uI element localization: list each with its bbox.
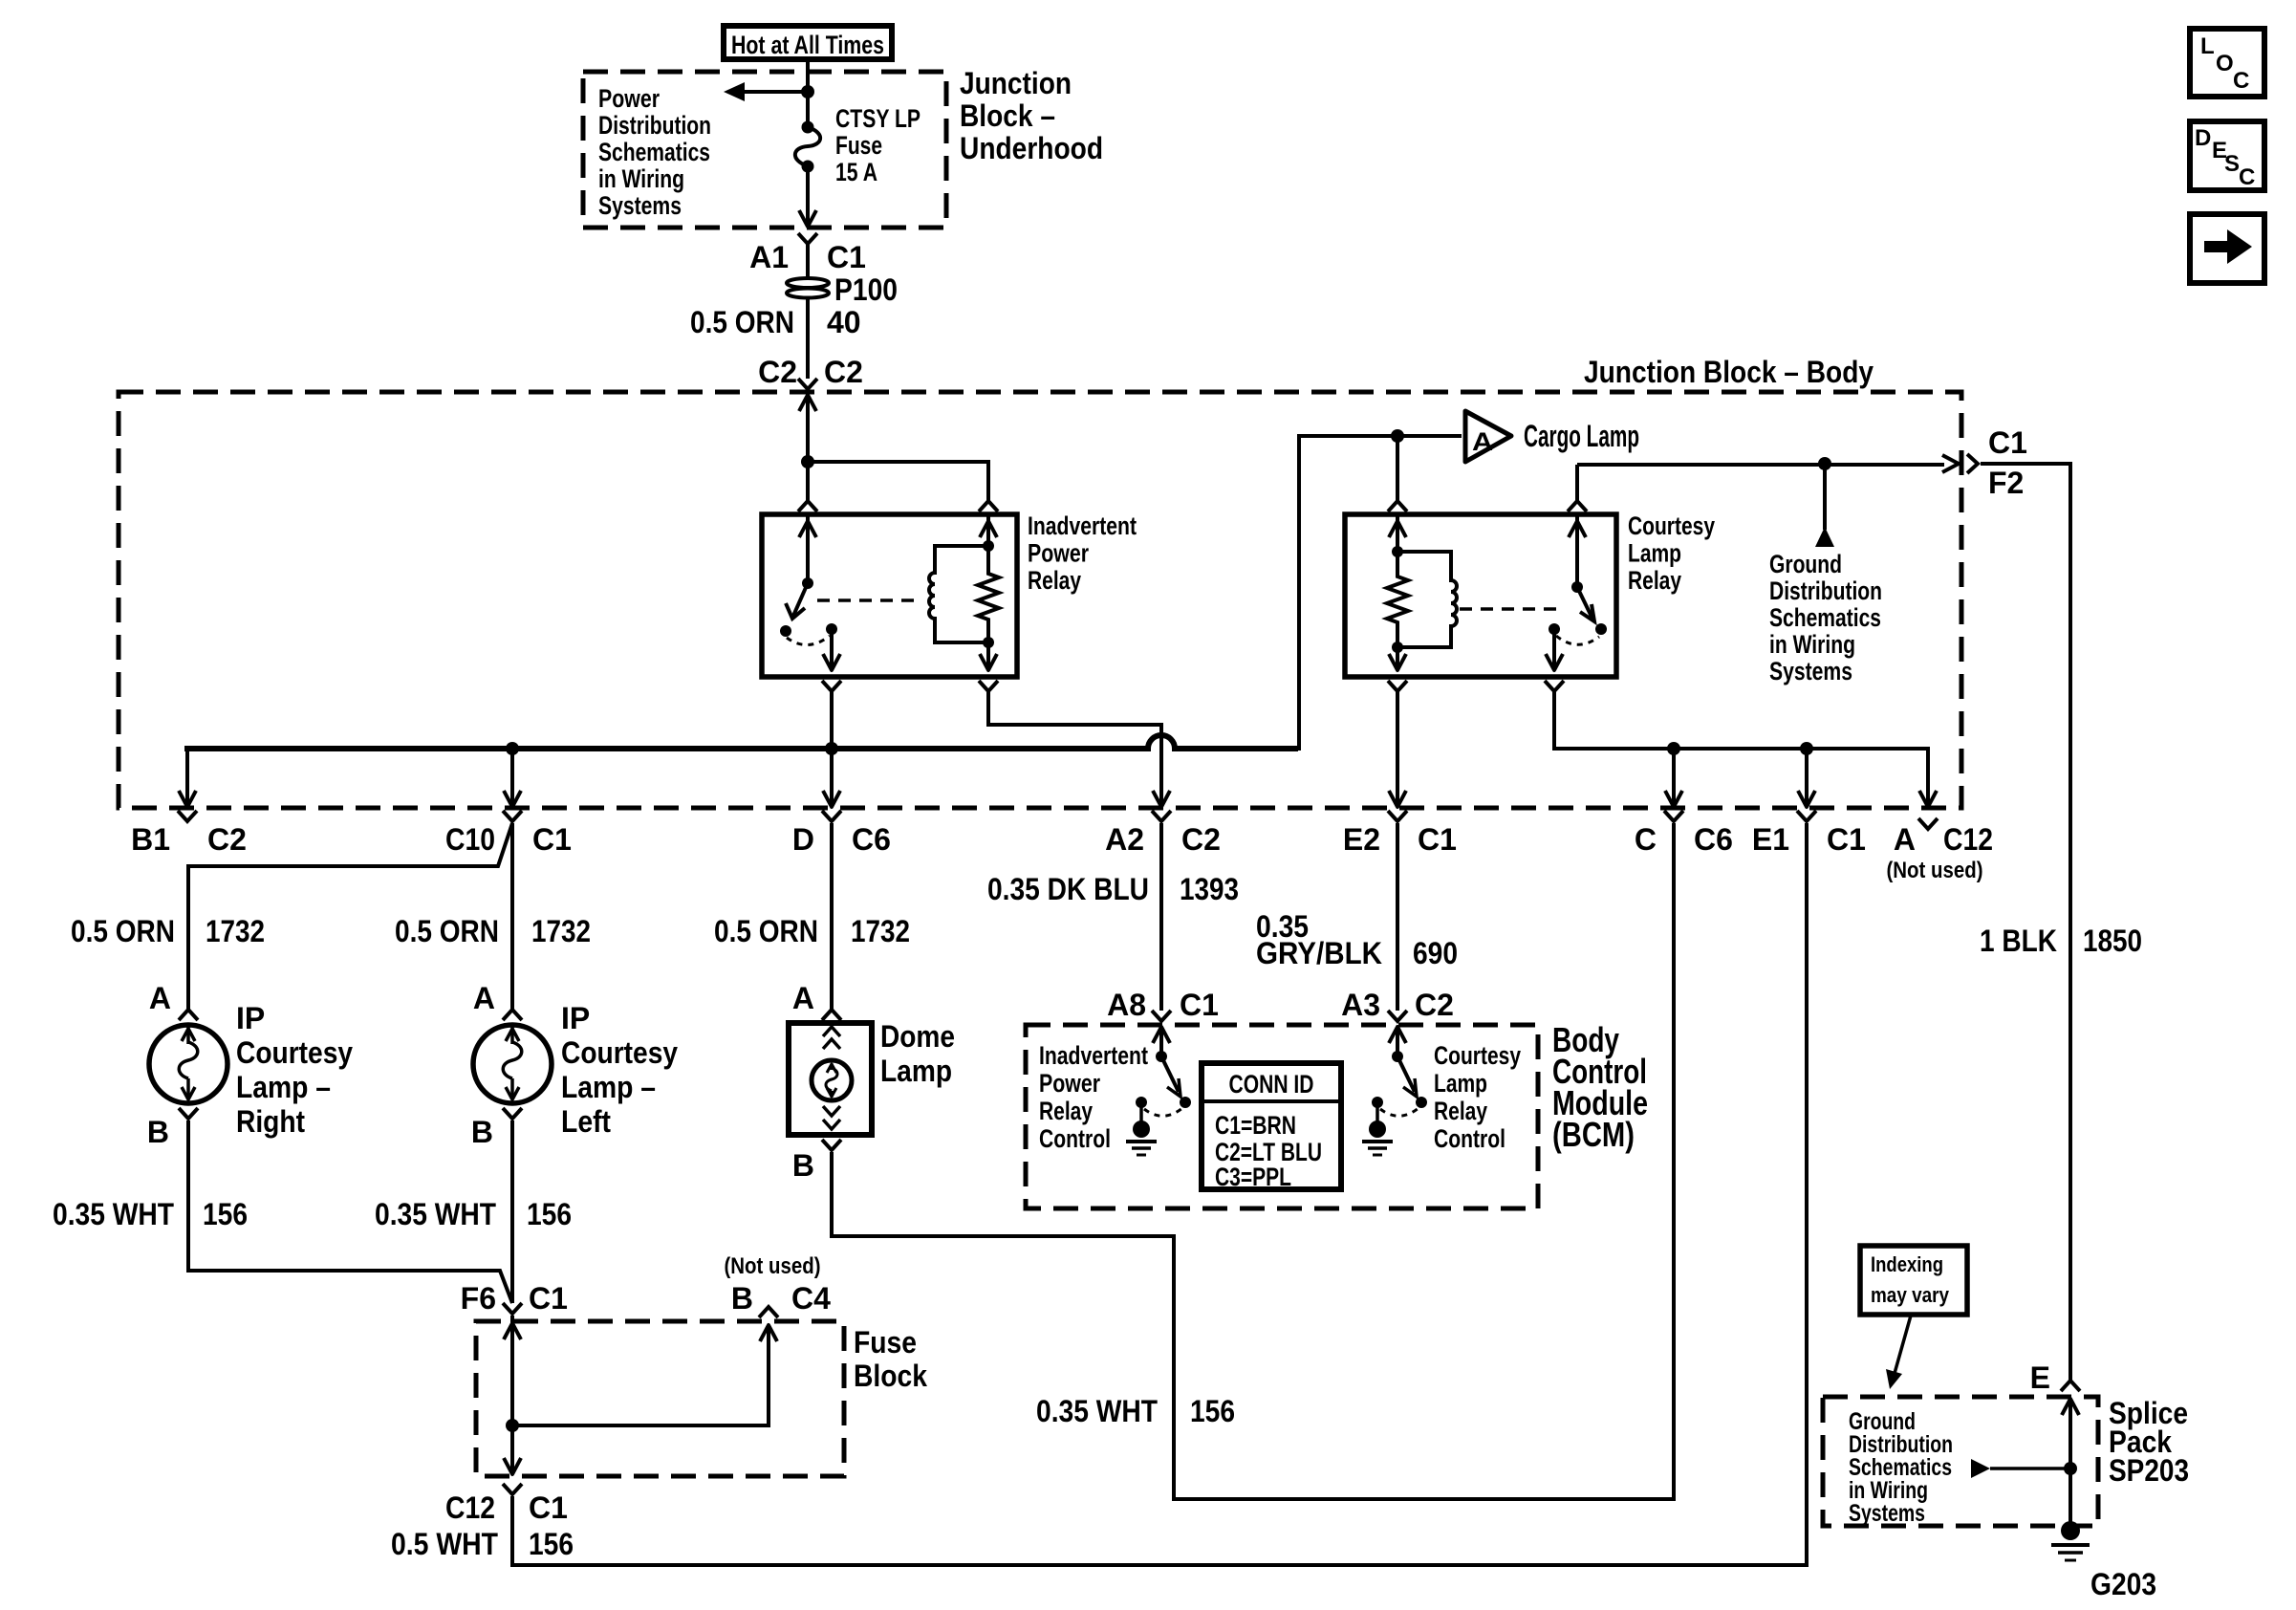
relay switch dashed arc — [787, 636, 830, 645]
svg-text:Lamp –: Lamp – — [561, 1070, 656, 1104]
courtesy switch pivot dot — [1571, 581, 1583, 593]
courtesy switch contact dots — [1595, 623, 1607, 635]
BCM courtesy switch arm — [1397, 1056, 1415, 1092]
wire courtesy output to bus — [1554, 691, 1928, 803]
svg-text:Cargo Lamp: Cargo Lamp — [1524, 419, 1639, 453]
svg-text:C: C — [1635, 822, 1657, 857]
junction dot bus at relay output — [825, 742, 838, 755]
svg-text:CONN ID: CONN ID — [1229, 1070, 1314, 1099]
wire bus to C10 connector — [510, 751, 514, 803]
wire hot feed into fuse — [806, 59, 810, 127]
svg-text:Inadvertent: Inadvertent — [1039, 1041, 1148, 1070]
svg-text:Lamp: Lamp — [1628, 539, 1681, 568]
connector chevron E1-C1 — [1797, 811, 1816, 821]
dome lamp double chevron top — [823, 1027, 840, 1036]
svg-text:Courtesy: Courtesy — [1434, 1041, 1521, 1070]
relay switch arm — [793, 583, 808, 616]
wire relay coil to A2 connector — [988, 691, 1161, 803]
svg-text:0.5 ORN: 0.5 ORN — [395, 914, 499, 948]
wire right lamp B to fuse block — [188, 1120, 512, 1303]
svg-text:F2: F2 — [1988, 466, 2024, 500]
svg-text:(BCM): (BCM) — [1552, 1115, 1635, 1154]
svg-text:C1: C1 — [1988, 425, 2027, 460]
svg-text:B: B — [731, 1281, 753, 1316]
BCM inadvertent pole dot — [1136, 1097, 1147, 1108]
svg-text:Systems: Systems — [1769, 657, 1852, 685]
connector chevron C2-C2 — [798, 379, 817, 389]
arrow into body block — [799, 395, 816, 411]
connector chevron C10-C1 — [503, 811, 522, 821]
svg-text:B1: B1 — [131, 822, 170, 857]
svg-text:Courtesy: Courtesy — [1628, 511, 1715, 540]
svg-text:Junction Block – Body: Junction Block – Body — [1584, 355, 1874, 389]
junction dot relay feed — [801, 455, 814, 468]
connector chevron A2-C2 — [1152, 811, 1171, 821]
svg-text:C1: C1 — [827, 240, 866, 274]
wire bus to B1 connector — [185, 749, 189, 803]
junction dot bus C — [1667, 742, 1680, 755]
svg-text:C2: C2 — [1181, 822, 1221, 857]
connector chevron D-C6 — [822, 811, 841, 821]
ground distribution triangle — [1815, 527, 1834, 547]
svg-text:A: A — [1472, 427, 1493, 456]
splice pack dashed box — [1823, 1397, 2098, 1526]
junction dot bus E1 — [1800, 742, 1813, 755]
svg-text:Relay: Relay — [1628, 566, 1681, 595]
svg-text:F6: F6 — [461, 1281, 496, 1316]
courtesy relay dashed link — [1460, 607, 1565, 611]
svg-text:Courtesy: Courtesy — [561, 1035, 678, 1070]
svg-text:1732: 1732 — [206, 914, 265, 948]
courtesy coil bottom dot — [1392, 642, 1403, 653]
legend box next-page arrow — [2190, 214, 2264, 283]
svg-text:Fuse: Fuse — [835, 131, 882, 160]
relay switch contact dots — [780, 625, 791, 637]
wire into body box — [806, 395, 810, 413]
svg-text:C6: C6 — [1694, 822, 1733, 857]
relay coil top dot — [983, 540, 994, 552]
svg-text:GRY/BLK: GRY/BLK — [1256, 936, 1382, 970]
label Hot at All Times box — [724, 26, 892, 59]
svg-text:Distribution: Distribution — [1769, 577, 1882, 605]
wire courtesy switch to C1-F2 — [1577, 463, 1944, 467]
wire C10 to both lamps — [188, 823, 512, 1010]
svg-text:C4: C4 — [791, 1281, 831, 1316]
svg-text:P100: P100 — [834, 272, 898, 307]
BCM courtesy control arrow — [1389, 1027, 1406, 1043]
svg-text:may vary: may vary — [1871, 1283, 1950, 1307]
svg-text:Systems: Systems — [1849, 1500, 1925, 1527]
svg-text:Lamp: Lamp — [1434, 1069, 1487, 1098]
svg-text:Lamp: Lamp — [880, 1054, 952, 1088]
svg-text:C2: C2 — [758, 355, 797, 389]
svg-text:A: A — [473, 981, 495, 1015]
fuse block junction dot — [506, 1419, 519, 1432]
wire 1 BLK 1850 — [1981, 464, 2070, 1380]
junction dot cargo line — [1391, 429, 1404, 443]
svg-text:0.5 ORN: 0.5 ORN — [690, 305, 794, 339]
BCM courtesy dashed arc — [1380, 1108, 1419, 1116]
arrow to power distribution — [738, 90, 808, 94]
fuse block output wire — [510, 1425, 514, 1474]
svg-text:1732: 1732 — [851, 914, 910, 948]
svg-text:C1: C1 — [529, 1490, 568, 1525]
indexing may vary box — [1860, 1246, 1967, 1315]
dome lamp box — [789, 1023, 872, 1135]
BCM inadvertent contact dot — [1180, 1097, 1191, 1108]
CONN ID box — [1202, 1063, 1341, 1189]
junction dot ground distribution — [1818, 457, 1831, 470]
svg-text:1850: 1850 — [2083, 924, 2142, 958]
arrow at C1-F2 edge — [1942, 455, 1959, 472]
splice pack ground G203 — [2069, 1469, 2072, 1524]
svg-text:(Not used): (Not used) — [725, 1253, 821, 1279]
chevron relay coil pin — [979, 501, 998, 511]
wire A2 to BCM A8 — [1159, 823, 1163, 1011]
svg-text:Relay: Relay — [1028, 566, 1081, 595]
lamp left filament — [510, 1027, 514, 1044]
svg-text:A3: A3 — [1341, 988, 1380, 1022]
svg-text:Dome: Dome — [880, 1019, 955, 1054]
svg-text:Block –: Block – — [960, 98, 1055, 133]
svg-text:A2: A2 — [1105, 822, 1144, 857]
svg-text:156: 156 — [203, 1197, 248, 1231]
fuse block dashed box — [476, 1321, 844, 1476]
svg-text:O: O — [2216, 51, 2234, 76]
wire bus riser to cargo lamp line — [1299, 436, 1462, 751]
svg-text:1 BLK: 1 BLK — [1980, 924, 2057, 958]
wire to ground distribution pointer — [1823, 464, 1827, 530]
BCM courtesy pivot dot — [1392, 1051, 1403, 1062]
courtesy resistor — [1387, 552, 1408, 647]
relay resistor — [978, 546, 999, 642]
IP courtesy lamp left chevron A — [503, 1010, 522, 1020]
wire connector to body block — [806, 244, 810, 379]
svg-text:Indexing: Indexing — [1871, 1252, 1943, 1276]
svg-text:C2: C2 — [824, 355, 863, 389]
lamp right filament — [186, 1027, 190, 1044]
svg-text:E2: E2 — [1343, 822, 1380, 857]
svg-text:Relay: Relay — [1039, 1097, 1093, 1125]
svg-text:CTSY LP: CTSY LP — [835, 104, 921, 133]
courtesy coil winding — [1397, 552, 1457, 647]
svg-text:Schematics: Schematics — [1769, 603, 1881, 632]
svg-text:15 A: 15 A — [835, 158, 877, 186]
svg-text:Junction: Junction — [960, 66, 1072, 100]
svg-text:Left: Left — [561, 1104, 611, 1139]
wire left lamp B to fuse block — [510, 1120, 514, 1303]
svg-text:E1: E1 — [1752, 822, 1789, 857]
chevron relay coil output — [979, 681, 998, 691]
svg-text:B: B — [792, 1148, 814, 1183]
wire junction to relay switch pin — [806, 462, 810, 501]
svg-text:C1: C1 — [1827, 822, 1866, 857]
svg-text:0.5 ORN: 0.5 ORN — [71, 914, 175, 948]
svg-text:Hot at All Times: Hot at All Times — [731, 31, 884, 59]
dome lamp double chevron bottom — [823, 1106, 840, 1116]
relay switch pin arrow — [806, 516, 810, 583]
svg-text:0.35 WHT: 0.35 WHT — [53, 1197, 174, 1231]
chevron relay switch output — [822, 681, 841, 691]
svg-text:IP: IP — [561, 1001, 590, 1035]
svg-text:A: A — [1894, 822, 1916, 857]
junction dot bus C10 — [506, 742, 519, 755]
BCM courtesy contact dot — [1416, 1097, 1427, 1108]
fuse block jumper to C4 — [512, 1325, 769, 1425]
svg-text:A1: A1 — [749, 240, 789, 274]
legend box LOC — [2190, 29, 2264, 97]
courtesy switch pin wire — [1575, 465, 1579, 501]
svg-text:C12: C12 — [445, 1490, 495, 1525]
svg-text:156: 156 — [527, 1197, 572, 1231]
svg-text:Control: Control — [1434, 1124, 1505, 1153]
svg-text:0.5 ORN: 0.5 ORN — [714, 914, 818, 948]
svg-text:C6: C6 — [852, 822, 891, 857]
svg-text:L: L — [2200, 33, 2215, 59]
svg-text:C1: C1 — [1418, 822, 1457, 857]
svg-text:in Wiring: in Wiring — [598, 164, 684, 193]
splice pack chevron E — [2061, 1381, 2080, 1391]
dome lamp filament — [831, 1063, 834, 1070]
courtesy coil pin wire — [1396, 516, 1399, 552]
wire courtesy coil to E2 connector — [1396, 691, 1399, 803]
arrow at D connector — [823, 791, 840, 807]
svg-text:C: C — [2239, 164, 2255, 190]
lamp left chevron B — [503, 1108, 522, 1119]
svg-text:A8: A8 — [1107, 988, 1146, 1022]
wire E2 to BCM A3 — [1396, 823, 1399, 1011]
junction block body dashed box — [119, 392, 1961, 808]
chevron courtesy coil output — [1388, 681, 1407, 691]
BCM courtesy ground — [1375, 1102, 1379, 1121]
svg-text:156: 156 — [529, 1527, 574, 1561]
courtesy lamp relay box — [1345, 514, 1616, 677]
svg-text:Fuse: Fuse — [854, 1325, 917, 1360]
svg-text:Schematics: Schematics — [598, 138, 710, 166]
svg-text:SP203: SP203 — [2109, 1453, 2189, 1488]
BCM courtesy pole dot — [1372, 1097, 1383, 1108]
svg-text:S: S — [2224, 151, 2240, 177]
wire D connector to dome lamp — [830, 823, 834, 1010]
courtesy switch dashed arc — [1556, 636, 1599, 644]
chevron relay switch pin — [798, 501, 817, 511]
svg-text:Inadvertent: Inadvertent — [1028, 511, 1137, 540]
svg-text:C10: C10 — [445, 822, 495, 857]
relay dashed link — [817, 598, 921, 602]
svg-text:Right: Right — [236, 1104, 305, 1139]
BCM inadvertent control arrow — [1153, 1027, 1170, 1043]
svg-text:1732: 1732 — [531, 914, 591, 948]
connector chevron A-C12 — [1918, 818, 1938, 829]
BCM chevron A8 — [1152, 1011, 1171, 1021]
splice pack junction dot — [2064, 1462, 2077, 1475]
chevron courtesy switch output — [1545, 681, 1564, 691]
fuse block feed wire — [510, 1316, 514, 1425]
svg-text:D: D — [2195, 125, 2211, 151]
relay coil output — [986, 642, 990, 668]
svg-text:Underhood: Underhood — [960, 131, 1103, 165]
svg-text:0.5 WHT: 0.5 WHT — [391, 1527, 498, 1561]
BCM chevron A3 — [1388, 1011, 1407, 1021]
splice pack pointer to note — [1971, 1459, 1990, 1478]
splice pack feed arrow — [2062, 1399, 2079, 1415]
chevron courtesy switch pin — [1568, 501, 1587, 511]
wire bus to C connector — [1672, 751, 1676, 803]
svg-text:Relay: Relay — [1434, 1097, 1487, 1125]
connector chevron C-C6 — [1664, 811, 1683, 821]
wire dome B to C connector riser — [832, 823, 1674, 1499]
svg-text:Block: Block — [854, 1359, 927, 1393]
svg-text:C: C — [2233, 68, 2249, 94]
svg-text:C1: C1 — [529, 1281, 568, 1316]
dome lamp bulb circle — [812, 1060, 852, 1100]
fuse block connector chevron F6 — [503, 1303, 522, 1314]
chevron courtesy coil pin — [1388, 501, 1407, 511]
svg-text:C1=BRN: C1=BRN — [1215, 1111, 1296, 1140]
BCM inadvertent switch arm — [1161, 1056, 1179, 1092]
grommet P100 — [787, 278, 829, 288]
connector chevron A1-C1 — [798, 233, 817, 244]
relay switch output wire — [830, 629, 834, 668]
fuse block chevron C12 — [503, 1484, 522, 1494]
svg-text:Lamp –: Lamp – — [236, 1070, 331, 1104]
svg-text:Control: Control — [1039, 1124, 1111, 1153]
wire entry to junction — [806, 409, 810, 462]
IP courtesy lamp right chevron A — [179, 1010, 198, 1020]
indexing arrow — [1894, 1316, 1911, 1377]
junction dot hot feed — [801, 85, 814, 98]
svg-text:1393: 1393 — [1180, 872, 1239, 906]
svg-text:0.35 WHT: 0.35 WHT — [375, 1197, 496, 1231]
wire fuse to underhood exit — [806, 166, 810, 227]
courtesy switch arm — [1577, 587, 1592, 619]
svg-text:G203: G203 — [2090, 1567, 2156, 1601]
chevron C1-F2 — [1967, 454, 1978, 473]
svg-text:0.35 DK BLU: 0.35 DK BLU — [987, 872, 1149, 906]
lamp right chevron B — [179, 1108, 198, 1119]
wire bus to E1 connector — [1805, 751, 1809, 803]
wire cargo junction to courtesy relay coil — [1396, 436, 1399, 501]
svg-text:C2: C2 — [1415, 988, 1454, 1022]
wire fuse block to E1 riser — [512, 823, 1807, 1565]
lamp left circle — [473, 1025, 552, 1103]
connector chevron B1-C2 — [178, 811, 197, 821]
svg-text:A: A — [792, 981, 814, 1015]
svg-text:C1: C1 — [1180, 988, 1219, 1022]
svg-text:Courtesy: Courtesy — [236, 1035, 353, 1070]
svg-text:0.35 WHT: 0.35 WHT — [1036, 1394, 1158, 1428]
connector chevron E2-C1 — [1388, 811, 1407, 821]
fuse CTSY LP 15A element — [802, 121, 814, 134]
cargo lamp triangle — [1465, 411, 1511, 462]
BCM inadvertent pivot dot — [1156, 1051, 1167, 1062]
relay coil bottom dot — [983, 637, 994, 648]
courtesy coil output — [1396, 647, 1399, 668]
svg-text:C3=PPL: C3=PPL — [1215, 1163, 1291, 1191]
svg-text:IP: IP — [236, 1001, 265, 1035]
legend box DESC — [2190, 121, 2264, 190]
svg-text:C1: C1 — [532, 822, 572, 857]
wire relay to D connector — [830, 691, 834, 803]
relay coil pin wire — [986, 516, 990, 546]
arrow at underhood exit — [799, 210, 816, 227]
svg-text:156: 156 — [1190, 1394, 1235, 1428]
BCM inadvertent ground — [1139, 1102, 1143, 1121]
bus wire left segment — [187, 735, 1298, 751]
wire junction to relay coil pin — [808, 462, 988, 501]
courtesy switch output wire — [1552, 629, 1556, 668]
junction block underhood dashed box — [583, 72, 946, 228]
relay switch pivot dot — [802, 577, 813, 589]
BCM inadvertent dashed arc — [1144, 1108, 1182, 1116]
inadvertent power relay box — [762, 514, 1017, 677]
dome lamp chevron A — [822, 1010, 841, 1020]
svg-text:Power: Power — [1028, 539, 1089, 568]
relay coil winding — [929, 546, 988, 642]
svg-text:E: E — [2030, 1360, 2050, 1395]
svg-text:B: B — [147, 1115, 169, 1149]
courtesy coil top dot — [1392, 546, 1403, 557]
svg-text:(Not used): (Not used) — [1887, 858, 1983, 883]
svg-text:A: A — [149, 981, 171, 1015]
svg-text:690: 690 — [1413, 936, 1458, 970]
svg-text:in Wiring: in Wiring — [1769, 630, 1855, 659]
fuse block chevron B-C4 — [759, 1307, 778, 1317]
svg-text:Distribution: Distribution — [598, 111, 711, 140]
svg-text:C2: C2 — [207, 822, 247, 857]
lamp right circle — [149, 1025, 227, 1103]
dome lamp chevron B — [822, 1140, 841, 1150]
svg-text:Power: Power — [1039, 1069, 1100, 1098]
body control module dashed box — [1026, 1025, 1538, 1208]
svg-text:Ground: Ground — [1769, 550, 1842, 578]
svg-text:B: B — [471, 1115, 493, 1149]
svg-text:D: D — [792, 822, 814, 857]
svg-text:Systems: Systems — [598, 191, 682, 220]
svg-text:C12: C12 — [1943, 822, 1993, 857]
svg-text:Power: Power — [598, 84, 660, 113]
svg-text:40: 40 — [827, 305, 861, 339]
